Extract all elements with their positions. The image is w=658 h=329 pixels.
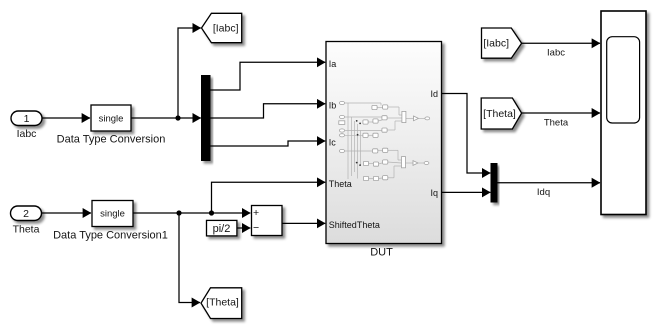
inport 1 Iabc <box>11 111 42 126</box>
wire demux out2 to DUT Ib <box>210 104 325 118</box>
svg-text:Id: Id <box>430 89 438 99</box>
svg-text:Theta: Theta <box>13 224 40 236</box>
wire demux out1 to DUT Ia <box>210 62 325 90</box>
wire inport2 to Data Type Conversion1 <box>42 212 92 214</box>
svg-text:Theta: Theta <box>329 179 352 189</box>
svg-text:Iq: Iq <box>430 188 438 198</box>
wire DUT Id to mux2 in1 <box>442 94 491 174</box>
wire demux out3 to DUT Ic <box>210 141 325 146</box>
from tag [Iabc] <box>482 28 522 58</box>
wire junction up to DUT Theta <box>212 182 326 213</box>
svg-text:Ia: Ia <box>329 59 337 69</box>
wire from Theta to scope, signal Theta <box>522 113 600 129</box>
goto tag [Iabc] <box>202 13 242 42</box>
svg-text:Iabc: Iabc <box>547 48 565 59</box>
DUT internal junction dots <box>356 120 361 166</box>
svg-text:[Theta]: [Theta] <box>206 297 239 309</box>
data type conversion block U: single <box>91 105 131 131</box>
wire junction up to goto Iabc <box>178 28 201 118</box>
svg-text:single: single <box>99 114 124 125</box>
data type conversion1 block: single <box>92 201 133 227</box>
svg-text:+: + <box>253 207 259 219</box>
svg-text:Idq: Idq <box>537 187 550 198</box>
svg-text:ShiftedTheta: ShiftedTheta <box>329 220 380 230</box>
wire mux2 to scope, signal Idq <box>497 183 600 198</box>
mux M2 <box>491 164 497 203</box>
DUT subsystem block <box>326 42 442 244</box>
wire junction down to goto Theta <box>179 213 200 303</box>
DUT internal preview icon <box>345 103 425 179</box>
wire pi/2 to sum minus input <box>237 227 250 229</box>
svg-text:Data Type Conversion1: Data Type Conversion1 <box>53 230 168 242</box>
from tag [Theta] <box>481 98 521 129</box>
svg-text:Ic: Ic <box>329 138 337 148</box>
svg-text:single: single <box>100 209 125 220</box>
svg-text:[Iabc]: [Iabc] <box>213 22 239 34</box>
wire Data Type Conversion to demux <box>131 117 201 119</box>
svg-text:2: 2 <box>23 208 29 220</box>
svg-text:Theta: Theta <box>544 118 569 129</box>
junction node theta up branch <box>209 210 214 215</box>
svg-text:1: 1 <box>24 113 30 125</box>
DUT name label <box>370 246 393 258</box>
wire Data Type Conversion1 to sum plus input <box>133 212 250 214</box>
svg-text:−: − <box>253 222 259 234</box>
junction node theta down branch <box>176 210 181 215</box>
sum block <box>252 206 283 236</box>
svg-text:Iabc: Iabc <box>17 128 37 140</box>
scope block <box>601 11 646 215</box>
DUT port labels <box>329 59 438 230</box>
svg-text:DUT: DUT <box>370 246 393 258</box>
scope screen icon <box>607 37 640 123</box>
wire DUT Iq to mux2 in2 <box>442 191 491 193</box>
svg-text:pi/2: pi/2 <box>213 223 231 235</box>
svg-text:[Theta]: [Theta] <box>483 108 516 120</box>
inport 2 Theta <box>11 206 42 221</box>
constant block pi/2 <box>207 220 237 236</box>
svg-text:Ib: Ib <box>329 100 337 110</box>
wire sum to DUT ShiftedTheta <box>282 222 325 224</box>
svg-text:[Iabc]: [Iabc] <box>483 37 509 49</box>
goto tag [Theta] <box>201 288 242 319</box>
junction node on Iabc wire <box>175 115 180 120</box>
svg-text:Data Type Conversion: Data Type Conversion <box>57 133 166 145</box>
wire from Iabc to scope, signal Iabc <box>522 43 600 58</box>
wire inport1 to Data Type Conversion <box>42 117 90 119</box>
demux D1 <box>202 76 211 161</box>
